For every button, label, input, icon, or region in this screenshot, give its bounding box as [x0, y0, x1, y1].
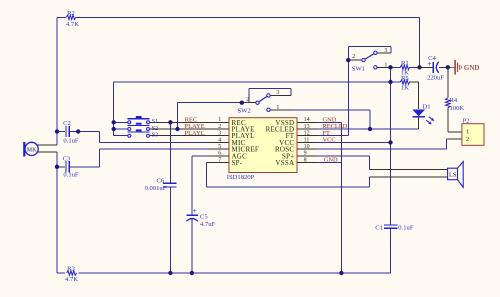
svg-text:4.7uF: 4.7uF	[200, 221, 216, 228]
svg-text:1: 1	[466, 129, 469, 136]
svg-text:C1: C1	[375, 225, 383, 232]
svg-text:GND: GND	[464, 64, 480, 72]
svg-text:0.1uF: 0.1uF	[63, 171, 79, 178]
svg-text:13: 13	[304, 124, 310, 130]
svg-text:ISD1820P: ISD1820P	[227, 174, 255, 181]
svg-text:7: 7	[218, 157, 221, 163]
svg-text:12: 12	[304, 131, 310, 137]
svg-text:C5: C5	[200, 213, 208, 220]
svg-text:D1: D1	[423, 103, 431, 110]
svg-text:2: 2	[466, 136, 469, 143]
svg-text:1: 1	[218, 117, 221, 123]
svg-text:8: 8	[304, 157, 307, 163]
svg-text:VSSA: VSSA	[275, 159, 294, 167]
svg-text:11: 11	[304, 137, 310, 143]
svg-text:220uF: 220uF	[427, 75, 444, 82]
svg-text:1: 1	[276, 105, 279, 111]
svg-text:MK: MK	[27, 147, 37, 153]
svg-text:5: 5	[218, 144, 221, 150]
svg-text:14: 14	[304, 117, 310, 123]
svg-text:SP-: SP-	[232, 159, 243, 167]
svg-text:0.001uF: 0.001uF	[145, 185, 167, 192]
svg-text:R5: R5	[401, 75, 409, 82]
svg-text:3: 3	[218, 131, 221, 137]
svg-text:R2: R2	[67, 10, 75, 17]
svg-text:S3: S3	[152, 132, 159, 139]
svg-text:4.7K: 4.7K	[66, 21, 79, 28]
svg-text:GND: GND	[324, 157, 338, 164]
svg-text:VCC: VCC	[323, 137, 336, 144]
svg-text:9: 9	[304, 151, 307, 157]
svg-text:2: 2	[218, 124, 221, 130]
svg-text:LS: LS	[449, 171, 457, 178]
svg-text:10: 10	[304, 144, 310, 150]
svg-text:100K: 100K	[450, 105, 465, 112]
svg-text:R3: R3	[67, 265, 75, 272]
svg-text:+: +	[193, 207, 197, 215]
svg-text:0.1uF: 0.1uF	[398, 225, 414, 232]
svg-text:1: 1	[384, 63, 387, 69]
svg-text:C3: C3	[63, 156, 71, 163]
svg-text:2: 2	[352, 54, 355, 60]
svg-text:1K: 1K	[401, 85, 409, 92]
svg-text:C2: C2	[63, 120, 71, 127]
svg-text:R1: R1	[401, 60, 409, 67]
svg-text:4.7K: 4.7K	[65, 276, 78, 283]
svg-text:4: 4	[218, 137, 221, 143]
svg-text:0.1uF: 0.1uF	[63, 137, 79, 144]
svg-text:C4: C4	[428, 55, 436, 62]
svg-text:PLAYL: PLAYL	[185, 130, 205, 137]
svg-text:2: 2	[246, 97, 249, 103]
svg-text:R4: R4	[450, 97, 458, 104]
svg-text:SW2: SW2	[238, 108, 251, 115]
svg-text:P2: P2	[463, 118, 470, 125]
svg-text:3: 3	[276, 90, 279, 96]
svg-text:SW1: SW1	[352, 66, 365, 73]
svg-text:6: 6	[218, 151, 221, 157]
svg-text:C6: C6	[156, 177, 164, 184]
svg-text:3: 3	[384, 48, 387, 54]
